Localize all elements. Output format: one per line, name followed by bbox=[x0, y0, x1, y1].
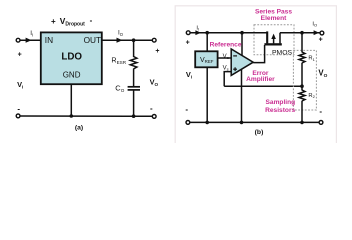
wire: C_O to bottom rail bbox=[133, 90, 135, 116]
dashed box: series pass element bbox=[254, 25, 294, 55]
frame of figure (b) bbox=[175, 6, 336, 146]
op-amp plus sign bbox=[233, 68, 237, 70]
svg-text:RESR: RESR bbox=[111, 55, 126, 65]
svg-text:Sampling: Sampling bbox=[266, 99, 296, 106]
current arrow I_I (b) bbox=[195, 30, 201, 35]
wire: op-amp output to PMOS gate bbox=[253, 45, 264, 63]
wire: feedback up-leg bbox=[224, 72, 231, 87]
wire: V_REF drop bbox=[206, 33, 208, 52]
junction dot: feedback tap bbox=[300, 84, 304, 88]
svg-text:VI: VI bbox=[186, 70, 192, 80]
junction dot: R2 gnd bbox=[300, 121, 304, 125]
wire: V_REF out to inverting input bbox=[218, 57, 232, 59]
node: output terminal (a) bbox=[152, 38, 156, 42]
svg-text:VDropout: VDropout bbox=[60, 16, 85, 27]
bottom rail (a) bbox=[20, 115, 152, 117]
wire: error amp ground bbox=[241, 64, 243, 122]
svg-text:IO: IO bbox=[118, 30, 124, 37]
wire: R_ESR to C_O bbox=[133, 69, 135, 87]
junction dot: error amp gnd bbox=[240, 121, 244, 125]
junction dot: GND at rail bbox=[70, 114, 74, 118]
node: output node dot (a) bbox=[132, 38, 136, 42]
junction dot: C_O at rail bbox=[132, 114, 136, 118]
svg-text:GND: GND bbox=[63, 71, 81, 80]
svg-text:-: - bbox=[185, 105, 188, 114]
svg-text:+: + bbox=[155, 48, 159, 55]
svg-text:Resistors: Resistors bbox=[265, 107, 295, 114]
capacitor C_O bbox=[128, 86, 140, 88]
svg-text:VO: VO bbox=[318, 68, 327, 79]
svg-text:+: + bbox=[51, 17, 56, 26]
resistor R2 bbox=[299, 90, 305, 101]
resistor R_ESR bbox=[130, 57, 137, 69]
node: output terminal (b) bbox=[320, 31, 324, 35]
svg-text:OUT: OUT bbox=[84, 35, 102, 45]
wire: rail to R1 bbox=[301, 33, 303, 53]
svg-text:R2: R2 bbox=[308, 93, 315, 99]
current arrow I_I (a) bbox=[26, 38, 32, 43]
svg-text:(b): (b) bbox=[255, 129, 264, 136]
svg-text:Vs: Vs bbox=[223, 65, 229, 71]
svg-text:II: II bbox=[30, 30, 33, 37]
svg-text:CO: CO bbox=[115, 83, 124, 93]
top rail right segment bbox=[280, 32, 320, 34]
wire: node down to R_ESR bbox=[133, 40, 135, 57]
svg-text:R1: R1 bbox=[308, 56, 315, 62]
resistor R1 bbox=[299, 52, 305, 63]
transistor Q1 PMOS: gate bar bbox=[264, 43, 281, 45]
node: input terminal (b) bbox=[186, 31, 190, 35]
current arrow I_O (a) bbox=[117, 38, 123, 43]
wire: V_REF to bottom rail bbox=[206, 67, 208, 122]
svg-text:VI: VI bbox=[17, 80, 23, 90]
junction dot: R1 tap bbox=[300, 31, 304, 35]
svg-text:+: + bbox=[319, 36, 323, 43]
wire: error amp supply bbox=[241, 33, 243, 57]
svg-text:IN: IN bbox=[45, 35, 53, 45]
node: bottom-left terminal (b) bbox=[186, 121, 190, 125]
svg-text:-: - bbox=[319, 107, 322, 116]
node: bottom-right terminal (b) bbox=[319, 121, 323, 125]
dashed box: sampling resistors bbox=[293, 50, 316, 110]
wire: input to LDO IN bbox=[20, 39, 41, 41]
svg-text:PMOS: PMOS bbox=[272, 49, 292, 56]
current arrow I_O (b) bbox=[314, 30, 320, 35]
svg-text:Reference: Reference bbox=[210, 42, 242, 49]
svg-text:VO: VO bbox=[150, 77, 159, 87]
junction dot: V_REF tap bbox=[205, 31, 209, 35]
svg-text:IO: IO bbox=[312, 21, 317, 27]
svg-text:Element: Element bbox=[261, 15, 287, 22]
node: bottom-right terminal (a) bbox=[152, 115, 156, 119]
svg-text:-: - bbox=[17, 105, 20, 114]
svg-text:+: + bbox=[18, 51, 22, 58]
svg-text:LDO: LDO bbox=[61, 52, 82, 63]
wire: LDO OUT to output terminal bbox=[102, 39, 152, 41]
junction dot: error amp supply tap bbox=[240, 31, 244, 35]
LDO regulator block U1 bbox=[41, 32, 102, 84]
op-amp U1 error amplifier bbox=[231, 49, 253, 75]
svg-text:-: - bbox=[150, 104, 153, 113]
transistor Q1 PMOS: drain stub bbox=[279, 33, 281, 44]
bottom rail (b) bbox=[190, 121, 319, 123]
wire: GND lead of LDO bbox=[70, 84, 72, 116]
op-amp minus sign bbox=[233, 55, 237, 57]
node: bottom-left terminal (a) bbox=[16, 114, 20, 118]
wire: feedback horizontal bbox=[224, 85, 302, 87]
svg-text:-: - bbox=[90, 16, 93, 25]
junction dot: V_REF gnd bbox=[205, 121, 209, 125]
svg-text:(a): (a) bbox=[75, 125, 83, 132]
svg-text:Va: Va bbox=[223, 54, 230, 60]
wire: R1 to tap bbox=[301, 63, 303, 91]
svg-text:Amplifier: Amplifier bbox=[246, 76, 275, 83]
top rail left segment bbox=[190, 32, 267, 34]
node: input terminal (a) bbox=[16, 38, 20, 42]
svg-text:+: + bbox=[186, 39, 190, 46]
transistor Q1 PMOS: source stub bbox=[266, 31, 268, 43]
transistor Q1 PMOS: channel arrow bbox=[273, 37, 275, 43]
reference block V_REF bbox=[195, 51, 217, 67]
wire: R2 to bottom rail bbox=[301, 101, 303, 123]
svg-text:II: II bbox=[196, 25, 199, 31]
